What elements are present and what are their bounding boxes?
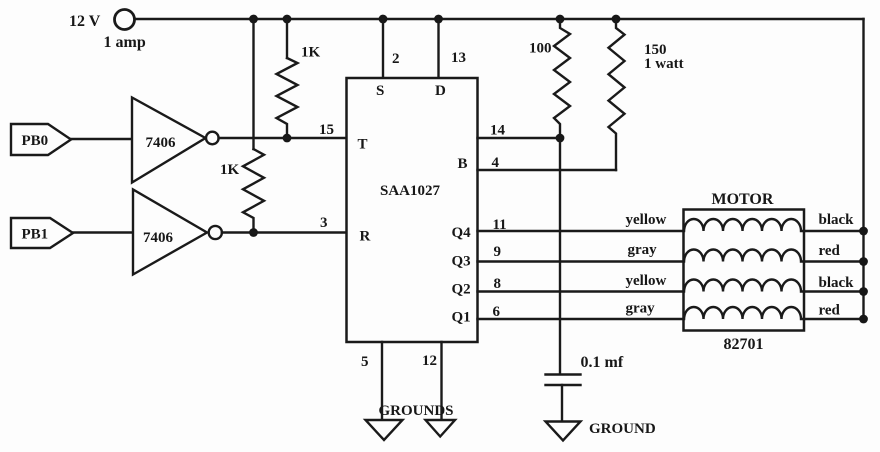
wire R: inverter B output to chip pin 3 [222,231,347,233]
svg-text:Q1: Q1 [452,310,471,326]
svg-text:9: 9 [494,244,502,260]
svg-text:11: 11 [493,217,507,233]
wire T: inverter A output to chip pin 15 [219,137,347,139]
ground symbol pin 12 [426,420,456,437]
svg-text:PB0: PB0 [22,133,49,149]
svg-text:B: B [458,156,468,172]
capacitor C1 0.1 mf [546,375,581,422]
wire motor L3 to right rail (black) [804,290,864,292]
svg-text:0.1 mf: 0.1 mf [581,354,624,371]
IC U2 SAA1027 [347,78,478,342]
svg-text:1 amp: 1 amp [104,34,146,51]
wire R3 junction down to capacitor (crosses pin4 and Q wires) [559,138,561,374]
svg-text:7406: 7406 [146,135,177,151]
svg-text:100: 100 [529,41,552,57]
junction node top rail 150ohm [612,15,621,24]
svg-text:red: red [819,303,841,319]
svg-text:R: R [360,229,371,245]
svg-text:SAA1027: SAA1027 [380,183,441,199]
svg-text:Q4: Q4 [452,225,472,241]
junction node rail L3 [859,287,868,296]
svg-text:7406: 7406 [143,230,174,246]
wire top power rail [135,18,864,20]
wire right rail [862,19,864,319]
resistor R4 150 1 watt [609,19,625,170]
svg-text:D: D [435,83,446,99]
wire Q1 pin 6 to motor [478,318,684,320]
svg-text:1 watt: 1 watt [644,56,684,72]
svg-text:GROUND: GROUND [589,421,656,437]
inverter U1B 7406 [133,190,222,275]
svg-text:T: T [358,137,368,153]
junction node top rail at x=253 [249,15,258,24]
wire from rail down to R1 [286,19,288,58]
ground symbol capacitor [546,422,581,441]
motor M1 82701 [684,210,805,331]
wire PB1 to inverter B [73,231,133,233]
resistor R1 1K (upper) [277,58,298,138]
wire rail to pin 2 [382,19,384,78]
wire motor L4 to right rail (red) [804,318,864,320]
wire pin 4 (B) to R4 bottom [478,169,617,171]
svg-text:3: 3 [320,215,328,231]
junction node rail L2 [859,257,868,266]
svg-text:PB1: PB1 [22,227,49,243]
svg-text:red: red [819,243,841,259]
svg-text:gray: gray [626,301,656,317]
svg-text:8: 8 [494,276,502,292]
wire pin 5 to ground [381,342,383,420]
junction node rail L1 [859,227,868,236]
wire motor L2 to right rail (red) [804,260,864,262]
svg-text:82701: 82701 [724,336,764,353]
winding L3 [684,280,804,292]
svg-text:4: 4 [492,155,500,171]
svg-text:MOTOR: MOTOR [712,191,774,208]
junction node pin14 / R3 / C1 [556,134,565,143]
wire Q2 pin 8 to motor [478,290,684,292]
svg-text:1K: 1K [220,162,240,178]
svg-text:yellow: yellow [626,273,667,289]
ground symbol pin 5 [366,420,403,440]
svg-text:1K: 1K [301,45,321,61]
svg-text:Q3: Q3 [452,254,471,270]
svg-text:5: 5 [361,354,369,370]
resistor R2 1K (lower) [243,149,264,233]
svg-text:black: black [819,275,855,291]
wire from rail down to R2 (crosses T wire) [252,19,254,149]
junction node T wire / R1 [283,134,292,143]
inverter U1A 7406 [132,98,219,183]
power source 12V 1 amp [115,10,135,30]
svg-text:6: 6 [493,304,501,320]
svg-text:14: 14 [490,123,506,139]
junction node top rail at x=287 [283,15,292,24]
wire Q3 pin 9 to motor [478,260,684,262]
svg-text:S: S [376,83,384,99]
connector PB1 [11,218,73,248]
junction node rail L4 [859,315,868,324]
svg-text:gray: gray [628,242,658,258]
wire pin 14 to R3 junction [478,137,561,139]
junction node top rail pin2 [379,15,388,24]
svg-text:Q2: Q2 [452,282,471,298]
wire rail to pin 13 [437,19,439,78]
connector PB0 [11,124,71,155]
junction node R wire / R2 [249,228,258,237]
winding L2 [684,250,804,262]
svg-text:yellow: yellow [626,212,667,228]
wire Q4 pin 11 to motor [478,230,684,232]
svg-text:2: 2 [392,51,400,67]
wire motor L1 to right rail (black) [804,230,864,232]
svg-text:15: 15 [319,122,334,138]
winding L4 (bottom) [684,307,804,319]
winding L1 (top) [684,219,804,231]
wire pin 12 to ground [440,342,442,420]
junction node top rail pin13 [434,15,443,24]
svg-text:12 V: 12 V [69,13,101,30]
resistor R3 100 [554,19,570,138]
svg-text:12: 12 [422,353,437,369]
svg-text:GROUNDS: GROUNDS [379,403,454,419]
junction node top rail 100ohm [556,15,565,24]
svg-text:13: 13 [451,50,466,66]
wire PB0 to inverter A [71,138,132,140]
svg-text:black: black [819,212,855,228]
